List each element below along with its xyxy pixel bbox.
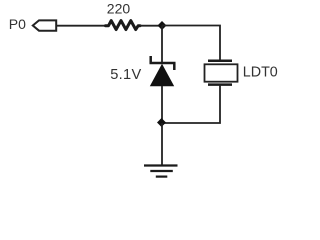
- wire zener to node B: [161, 86, 163, 123]
- svg-text:LDT0: LDT0: [243, 65, 278, 81]
- wire node A down to zener: [161, 26, 163, 63]
- node B junction dot: [157, 118, 166, 127]
- port P0: [33, 20, 56, 30]
- zener diode anode triangle: [150, 64, 174, 87]
- piezo sensor LDT0 bottom plate: [208, 83, 232, 86]
- ground: [144, 166, 178, 177]
- wire node A to LDT0 top: [162, 26, 220, 60]
- piezo sensor LDT0 body: [205, 64, 238, 81]
- resistor 220: [106, 21, 141, 30]
- node A junction dot: [158, 21, 167, 30]
- wire resistor to node A: [140, 25, 162, 27]
- zener diode cathode bar: [150, 56, 176, 70]
- piezo sensor LDT0 top plate: [208, 60, 232, 63]
- wire node B to ground: [161, 123, 163, 166]
- svg-text:220: 220: [107, 1, 131, 17]
- wire LDT0 bottom to node B: [162, 85, 220, 123]
- wire port to resistor: [56, 25, 106, 27]
- svg-text:5.1V: 5.1V: [110, 67, 141, 83]
- svg-text:P0: P0: [9, 16, 26, 32]
